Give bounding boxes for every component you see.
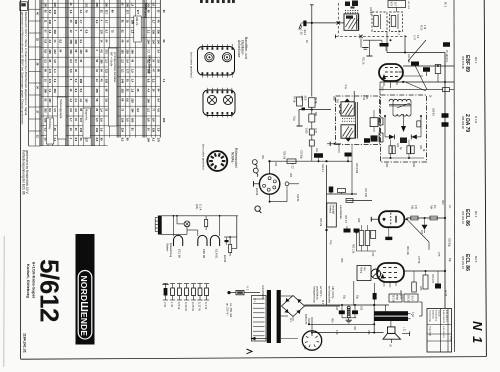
output transformer primary leads bbox=[385, 305, 387, 311]
svg-text:C30 50µ: C30 50µ bbox=[300, 150, 302, 160]
IF secondary coil bbox=[341, 125, 355, 138]
antenna input plug BG5 bbox=[299, 24, 301, 29]
wire antenna bus vertical bbox=[311, 5, 313, 97]
svg-text:5,6: 5,6 bbox=[69, 69, 73, 73]
tuning gang dashed horizontal bbox=[336, 35, 408, 37]
svg-text:1/10 153 19: 1/10 153 19 bbox=[442, 326, 444, 338]
wire IF top to B+ rail bbox=[379, 89, 443, 91]
svg-text:470: 470 bbox=[414, 205, 417, 210]
svg-text:6+1/10-Kreis-Super: 6+1/10-Kreis-Super bbox=[32, 262, 37, 299]
svg-text:N 1: N 1 bbox=[470, 321, 485, 344]
svg-text:137: 137 bbox=[85, 138, 89, 143]
transformer secondary connection stubs bbox=[281, 295, 293, 297]
ratio load resistor pair right bbox=[407, 146, 410, 154]
svg-text:175: 175 bbox=[156, 138, 160, 143]
svg-text:C 27: C 27 bbox=[314, 128, 317, 134]
svg-text:5,6: 5,6 bbox=[100, 118, 104, 122]
svg-text:Fernbedien.: Fernbedien. bbox=[435, 310, 438, 322]
AF coupling top wire bbox=[327, 193, 358, 195]
cathode resistor Roe5 bbox=[423, 275, 428, 289]
svg-text:UKW = Bereich: UKW = Bereich bbox=[148, 55, 152, 74]
svg-text:167: 167 bbox=[85, 98, 89, 103]
heater chain capacitor bbox=[225, 240, 229, 242]
heater of EBF 89 bbox=[198, 235, 207, 246]
svg-text:R63 10k: R63 10k bbox=[406, 246, 408, 256]
svg-text:C77 5k: C77 5k bbox=[417, 256, 419, 264]
IF primary pins bbox=[340, 105, 342, 108]
svg-text:8,5: 8,5 bbox=[74, 138, 78, 142]
svg-text:4/619 059 53: 4/619 059 53 bbox=[442, 310, 444, 324]
AM diode diagonal wires bbox=[415, 66, 427, 90]
svg-text:155: 155 bbox=[151, 30, 155, 35]
svg-text:248: 248 bbox=[121, 79, 125, 84]
svg-text:190: 190 bbox=[121, 118, 125, 123]
svg-text:beleuchtung: beleuchtung bbox=[169, 243, 173, 258]
mains arrow lead bbox=[251, 338, 267, 340]
svg-text:C63: C63 bbox=[420, 230, 422, 235]
svg-text:an Wellenschalter-Kontakten: an Wellenschalter-Kontakten bbox=[113, 52, 116, 83]
table section header Magn-Antenne bbox=[83, 108, 90, 138]
svg-text:277: 277 bbox=[136, 10, 140, 15]
svg-text:Klang: Klang bbox=[360, 267, 363, 274]
EM84 target jack bbox=[285, 182, 289, 186]
svg-text:Si 0,8A: Si 0,8A bbox=[392, 295, 395, 303]
svg-text:8,0: 8,0 bbox=[79, 89, 83, 93]
svg-text:152: 152 bbox=[95, 128, 99, 133]
table section header NF-Teil bbox=[108, 48, 117, 126]
svg-text:9,6: 9,6 bbox=[136, 108, 140, 112]
svg-text:1,9: 1,9 bbox=[156, 128, 160, 132]
speaker bbox=[388, 327, 396, 334]
svg-text:Y 22: Y 22 bbox=[291, 163, 295, 169]
svg-text:5,0: 5,0 bbox=[74, 79, 78, 83]
scan edge shadow left bbox=[3, 236, 5, 367]
svg-text:169: 169 bbox=[131, 49, 135, 54]
svg-text:217: 217 bbox=[126, 10, 130, 15]
svg-text:EM 84: EM 84 bbox=[223, 255, 226, 263]
svg-text:Röhrensockel: Röhrensockel bbox=[234, 148, 238, 168]
Roe4 cathode dot bbox=[383, 218, 386, 221]
B+ decoupling caps bbox=[442, 113, 449, 118]
svg-text:1,3: 1,3 bbox=[69, 98, 73, 102]
svg-text:Fernbed.: Fernbed. bbox=[329, 205, 332, 215]
heater of ECL 86 (Roe5) bbox=[174, 235, 183, 246]
svg-text:auf 220 V~: auf 220 V~ bbox=[319, 286, 322, 298]
svg-text:0,1 W: 0,1 W bbox=[204, 302, 208, 310]
table section header FM-Eingang bbox=[46, 118, 53, 144]
svg-text:1,9: 1,9 bbox=[48, 30, 52, 34]
voltage measurement table grid bbox=[28, 0, 30, 146]
svg-text:BG 5: BG 5 bbox=[303, 30, 306, 36]
coupling capacitor C70 bbox=[329, 187, 334, 193]
svg-text:ECH 81: ECH 81 bbox=[215, 249, 219, 259]
svg-text:3,1: 3,1 bbox=[121, 69, 125, 73]
svg-text:BF3: BF3 bbox=[390, 2, 393, 7]
svg-text:224: 224 bbox=[121, 128, 125, 133]
svg-text:229: 229 bbox=[131, 98, 135, 103]
table top cut row marks bbox=[200, 0, 203, 3]
svg-text:0,1µ: 0,1µ bbox=[293, 116, 296, 121]
svg-text:108: 108 bbox=[147, 98, 151, 103]
svg-text:8,7: 8,7 bbox=[105, 30, 109, 34]
table section header Tastenaggregat bbox=[57, 97, 66, 139]
svg-text:C31: C31 bbox=[315, 148, 317, 153]
ratio detector secondary coils bbox=[393, 114, 401, 116]
svg-text:288: 288 bbox=[79, 79, 83, 84]
svg-text:3,6: 3,6 bbox=[74, 108, 78, 112]
ratio stabilizing elco bbox=[400, 138, 407, 144]
svg-text:EM 84: EM 84 bbox=[255, 188, 258, 196]
svg-text:R44: R44 bbox=[419, 145, 421, 150]
rectifier output HT line bbox=[305, 304, 390, 306]
svg-text:C 47: C 47 bbox=[413, 35, 416, 41]
junction dots bbox=[311, 109, 313, 111]
svg-text:6,3: 6,3 bbox=[69, 59, 73, 63]
svg-text:2,2: 2,2 bbox=[121, 59, 125, 63]
series resistor in heater chain bbox=[205, 220, 208, 227]
ratio right boundary components bbox=[417, 121, 421, 127]
svg-text:250: 250 bbox=[95, 89, 99, 94]
svg-text:297: 297 bbox=[48, 98, 52, 103]
svg-text:4,7: 4,7 bbox=[79, 20, 83, 24]
svg-text:D 1/2: D 1/2 bbox=[474, 116, 478, 124]
Roe5 pins bbox=[383, 282, 385, 287]
svg-text:2 DA 79: 2 DA 79 bbox=[464, 114, 470, 132]
svg-text:am Netzschalter: am Netzschalter bbox=[328, 286, 331, 303]
connector bracket K5 bbox=[421, 302, 423, 316]
svg-text:181: 181 bbox=[121, 49, 125, 54]
bandfilter BF2 bottom view (oscillator) bbox=[203, 90, 235, 116]
IF filter can I coil box bbox=[344, 14, 359, 30]
svg-text:3,2: 3,2 bbox=[53, 79, 57, 83]
svg-text:Gegentakt: Gegentakt bbox=[429, 326, 432, 336]
svg-text:285: 285 bbox=[100, 59, 104, 64]
svg-text:C80 50µ: C80 50µ bbox=[448, 238, 450, 248]
svg-text:V 20: V 20 bbox=[449, 336, 452, 342]
svg-text:R31 1k: R31 1k bbox=[362, 57, 364, 65]
gang coupling diamond 1 bbox=[337, 21, 340, 24]
coupling resistor bbox=[430, 216, 437, 220]
ratio load resistor pair left bbox=[389, 146, 392, 154]
svg-text:an K5: an K5 bbox=[444, 290, 446, 297]
wire detector output bus bbox=[270, 160, 353, 162]
rectifier output wire bbox=[305, 305, 341, 307]
svg-text:9,3: 9,3 bbox=[121, 138, 125, 142]
diagonal coupling wire to Roe5 bbox=[407, 219, 429, 242]
resistor wattage legend bbox=[165, 284, 167, 289]
svg-text:1M: 1M bbox=[433, 205, 436, 208]
svg-text:9,8: 9,8 bbox=[147, 118, 151, 122]
svg-text:3,4: 3,4 bbox=[156, 49, 160, 53]
svg-text:405 876 86: 405 876 86 bbox=[461, 56, 465, 70]
FM tuner resistor bbox=[297, 97, 303, 106]
svg-text:6,3V: 6,3V bbox=[335, 330, 337, 335]
ratio tertiary wedge bbox=[401, 126, 406, 132]
IF trimmer capacitor bbox=[370, 118, 378, 127]
svg-text:C84 0,047µ: C84 0,047µ bbox=[331, 286, 334, 299]
svg-text:0,0: 0,0 bbox=[126, 118, 130, 122]
svg-text:R45 1M: R45 1M bbox=[319, 218, 321, 226]
wire tone to output grid bbox=[371, 273, 372, 275]
svg-text:405 201 16: 405 201 16 bbox=[461, 256, 465, 270]
volume control feed wire bbox=[326, 165, 328, 288]
tuning indicator EM84 (Roe6) bbox=[269, 161, 271, 174]
decoupling resistor R20 bbox=[443, 88, 450, 92]
svg-text:V12: V12 bbox=[303, 345, 306, 350]
svg-text:Rö 5: Rö 5 bbox=[474, 256, 478, 263]
cathode resistor pair ECL86 bbox=[359, 231, 364, 246]
volume potentiometer box bbox=[327, 203, 337, 227]
output transformer winding bar 2 bbox=[374, 317, 408, 321]
svg-text:220: 220 bbox=[162, 118, 166, 123]
svg-text:184: 184 bbox=[131, 108, 135, 113]
svg-text:R40 0,5M: R40 0,5M bbox=[355, 163, 357, 173]
svg-text:Si 2: Si 2 bbox=[321, 300, 323, 305]
svg-text:ECL 86: ECL 86 bbox=[464, 209, 470, 226]
svg-text:186: 186 bbox=[43, 89, 47, 94]
heater of ECH 81 bbox=[210, 235, 219, 246]
svg-text:FM-Eing.: FM-Eing. bbox=[48, 119, 52, 130]
svg-text:ZF 460 kHz: ZF 460 kHz bbox=[445, 50, 448, 63]
wire volume rail to HT line bbox=[326, 288, 328, 305]
drawing frame bottom border bbox=[21, 357, 487, 360]
svg-text:209: 209 bbox=[74, 40, 78, 45]
svg-text:0,5 W: 0,5 W bbox=[177, 302, 181, 310]
svg-text:1005: 1005 bbox=[305, 128, 308, 134]
AM input chain capacitor C2 bbox=[309, 140, 314, 146]
svg-text:3,4: 3,4 bbox=[79, 10, 83, 14]
svg-text:117: 117 bbox=[105, 10, 109, 15]
svg-text:C55: C55 bbox=[332, 96, 334, 101]
heater chain right branch bbox=[236, 216, 238, 249]
power transformer primary winding hatch bbox=[252, 296, 267, 342]
svg-text:Geräuschsp.: Geräuschsp. bbox=[429, 310, 432, 323]
Roe4 plate lead right bbox=[404, 218, 406, 220]
svg-text:an 220 V~: an 220 V~ bbox=[226, 303, 230, 316]
svg-text:225: 225 bbox=[121, 89, 125, 94]
svg-text:145: 145 bbox=[79, 49, 83, 54]
Nordmende logo block bbox=[76, 234, 95, 345]
svg-text:6,5: 6,5 bbox=[95, 118, 99, 122]
AM input chain resistor R2 bbox=[309, 129, 314, 135]
svg-text:294: 294 bbox=[147, 40, 151, 45]
svg-text:Gl 1: Gl 1 bbox=[289, 318, 291, 323]
svg-text:1,4: 1,4 bbox=[53, 69, 57, 73]
wire Roe4 anode bbox=[407, 217, 445, 219]
svg-text:C 52: C 52 bbox=[362, 95, 365, 101]
tone potentiometer bbox=[371, 269, 381, 279]
IF primary coil bbox=[341, 102, 354, 116]
svg-text:C61: C61 bbox=[411, 205, 414, 210]
svg-text:258: 258 bbox=[74, 20, 78, 25]
ratio bottom line bbox=[382, 157, 424, 159]
ratio diode D1 bbox=[389, 135, 395, 140]
svg-text:C97: C97 bbox=[353, 326, 355, 331]
svg-text:2,6: 2,6 bbox=[69, 108, 73, 112]
svg-text:9,1: 9,1 bbox=[79, 40, 83, 44]
svg-text:203: 203 bbox=[43, 108, 47, 113]
svg-text:Rö 4: Rö 4 bbox=[474, 211, 478, 218]
svg-text:AM-ZF: AM-ZF bbox=[135, 17, 139, 26]
svg-text:2,1: 2,1 bbox=[74, 98, 78, 102]
svg-text:258: 258 bbox=[69, 40, 73, 45]
svg-text:505 20: 505 20 bbox=[407, 295, 409, 303]
AM input chain resistor R1 bbox=[309, 98, 316, 108]
svg-text:R70 170: R70 170 bbox=[431, 274, 433, 284]
svg-text:6,8: 6,8 bbox=[147, 79, 151, 83]
Roe4 cathode network bbox=[385, 237, 392, 240]
svg-text:7,2: 7,2 bbox=[48, 89, 52, 93]
svg-text:170: 170 bbox=[100, 30, 104, 35]
AM input chain coil L1 bbox=[309, 114, 315, 122]
IF bottom right components bbox=[364, 138, 370, 143]
svg-text:10,7: 10,7 bbox=[394, 2, 397, 7]
svg-text:8,6: 8,6 bbox=[85, 30, 89, 34]
svg-text:486 496 96: 486 496 96 bbox=[461, 116, 465, 130]
svg-text:1,9: 1,9 bbox=[131, 89, 135, 93]
drawing frame left border bbox=[20, 0, 22, 359]
svg-text:EBF 89: EBF 89 bbox=[202, 249, 206, 258]
output transformer secondary ticks bbox=[408, 312, 411, 314]
dial lamp bbox=[184, 221, 190, 227]
svg-text:FM-Eingang: FM-Eingang bbox=[144, 3, 148, 18]
screen resistor bbox=[435, 65, 441, 74]
svg-text:C49 80: C49 80 bbox=[369, 7, 371, 15]
svg-text:R64: R64 bbox=[430, 205, 433, 210]
IF filter can I top cluster bbox=[345, 2, 350, 7]
svg-text:R80 270: R80 270 bbox=[399, 290, 401, 300]
IF bottom terminal bbox=[327, 143, 341, 145]
svg-text:1,5: 1,5 bbox=[53, 108, 57, 112]
svg-text:C96: C96 bbox=[360, 306, 362, 311]
svg-text:2,3: 2,3 bbox=[95, 20, 99, 24]
antenna series capacitor C16 bbox=[303, 21, 306, 27]
ratio left boundary resistor bbox=[379, 118, 383, 125]
svg-text:Tr 1: Tr 1 bbox=[253, 298, 256, 303]
svg-text:5,2: 5,2 bbox=[48, 10, 52, 14]
svg-text:R21: R21 bbox=[261, 155, 263, 160]
svg-text:229: 229 bbox=[151, 128, 155, 133]
IF transformer feed from top bbox=[353, 91, 355, 102]
svg-text:C33 0,1: C33 0,1 bbox=[321, 164, 323, 173]
svg-text:226: 226 bbox=[53, 3, 57, 8]
svg-text:0,25 W: 0,25 W bbox=[191, 302, 195, 311]
bridge rectifier bbox=[282, 296, 305, 317]
Roe5 electrode dashes bbox=[383, 267, 386, 269]
svg-text:1,4: 1,4 bbox=[131, 79, 135, 83]
svg-text:252: 252 bbox=[69, 49, 73, 54]
wire AVC line bbox=[380, 81, 454, 83]
grid resistor R70 bbox=[338, 189, 346, 193]
svg-text:reg.: reg. bbox=[363, 267, 366, 271]
feedback resistor bbox=[412, 282, 417, 292]
ratio detector box (dashed) bbox=[381, 95, 427, 162]
svg-text:C85: C85 bbox=[419, 286, 421, 291]
pickup jack hooks bbox=[252, 160, 257, 165]
svg-text:3,6: 3,6 bbox=[100, 128, 104, 132]
svg-text:(von unten gesehen): (von unten gesehen) bbox=[190, 52, 194, 78]
wire EBF89 screen right lower bbox=[403, 75, 423, 77]
svg-text:R 20: R 20 bbox=[420, 25, 423, 31]
fuse box Si2 bbox=[404, 294, 418, 302]
svg-text:50µ: 50µ bbox=[356, 295, 358, 300]
svg-text:umschaltung: umschaltung bbox=[316, 286, 319, 300]
svg-text:8,5: 8,5 bbox=[95, 138, 99, 142]
svg-text:8,6: 8,6 bbox=[43, 49, 47, 53]
rectifier tube socket view bbox=[302, 331, 321, 350]
svg-text:Anschlüsse: Anschlüsse bbox=[237, 40, 241, 57]
IF filter can I dot rows bbox=[345, 10, 346, 11]
svg-text:R30: R30 bbox=[381, 86, 383, 91]
svg-text:BF 4: BF 4 bbox=[397, 30, 399, 36]
FM tuner feed wire bbox=[299, 109, 331, 111]
svg-text:295: 295 bbox=[48, 49, 52, 54]
svg-text:TR 5k: TR 5k bbox=[314, 97, 317, 104]
filter choke beads bbox=[347, 306, 350, 309]
svg-text:405 201 16: 405 201 16 bbox=[461, 211, 465, 225]
svg-text:C34: C34 bbox=[274, 162, 276, 167]
svg-text:R52 1,2k: R52 1,2k bbox=[351, 244, 353, 254]
IF coupling dot rows bbox=[342, 118, 343, 119]
wire Roe5 anode to output transformer bbox=[404, 270, 445, 272]
svg-text:Zusatz: Zusatz bbox=[438, 310, 441, 317]
svg-text:gemessen mit Röhrenvoltmeter 1: gemessen mit Röhrenvoltmeter 10 MΩ/V bei… bbox=[21, 12, 25, 125]
svg-text:-5,0 A: -5,0 A bbox=[411, 295, 414, 301]
svg-text:171: 171 bbox=[48, 79, 52, 84]
svg-text:30,5: 30,5 bbox=[303, 96, 306, 101]
svg-text:L 31: L 31 bbox=[403, 327, 405, 332]
heater chain top wire bbox=[160, 215, 239, 217]
terminal bar FM feed bbox=[297, 125, 303, 127]
svg-text:NOVAL-: NOVAL- bbox=[231, 152, 235, 164]
svg-text:1,9: 1,9 bbox=[131, 69, 135, 73]
coupling capacitor C21 bbox=[443, 42, 450, 47]
svg-text:2,2: 2,2 bbox=[151, 79, 155, 83]
svg-text:250: 250 bbox=[156, 30, 160, 35]
svg-text:V 1: V 1 bbox=[246, 286, 250, 291]
svg-text:2,7: 2,7 bbox=[151, 20, 155, 24]
svg-text:C 16: C 16 bbox=[300, 30, 303, 36]
screen bypass capacitor bbox=[423, 67, 430, 72]
svg-text:9,4: 9,4 bbox=[156, 98, 160, 102]
svg-text:1,2: 1,2 bbox=[79, 98, 83, 102]
svg-text:0,17 W: 0,17 W bbox=[198, 302, 202, 311]
svg-text:gemessen im Netzbetrieb 10 V: gemessen im Netzbetrieb 10 V bbox=[25, 150, 29, 194]
svg-text:C72: C72 bbox=[371, 252, 373, 257]
wire junction to cathode network bbox=[356, 233, 358, 252]
svg-text:R60: R60 bbox=[441, 200, 443, 205]
svg-text:4,6: 4,6 bbox=[156, 108, 160, 112]
svg-text:177: 177 bbox=[126, 69, 130, 74]
svg-text:R55: R55 bbox=[340, 258, 342, 263]
svg-text:R90: R90 bbox=[331, 318, 333, 323]
svg-text:C62: C62 bbox=[385, 163, 387, 168]
ratio filter box top bbox=[388, 1, 406, 8]
svg-text:8,2: 8,2 bbox=[59, 40, 63, 44]
svg-text:C41 200: C41 200 bbox=[364, 188, 366, 198]
cathode bypass cap Roe5 bbox=[435, 284, 441, 289]
ratio diode D2 bbox=[411, 135, 417, 140]
svg-text:R26 1M: R26 1M bbox=[283, 151, 285, 159]
svg-text:R24: R24 bbox=[289, 173, 291, 178]
svg-text:249: 249 bbox=[53, 10, 57, 15]
svg-text:125: 125 bbox=[365, 95, 368, 100]
svg-text:6,9: 6,9 bbox=[48, 108, 52, 112]
gang ground stub bbox=[360, 39, 362, 48]
svg-text:Bl. 2: Bl. 2 bbox=[444, 2, 448, 8]
svg-text:8,0: 8,0 bbox=[126, 98, 130, 102]
svg-text:EBF 89: EBF 89 bbox=[464, 55, 470, 72]
